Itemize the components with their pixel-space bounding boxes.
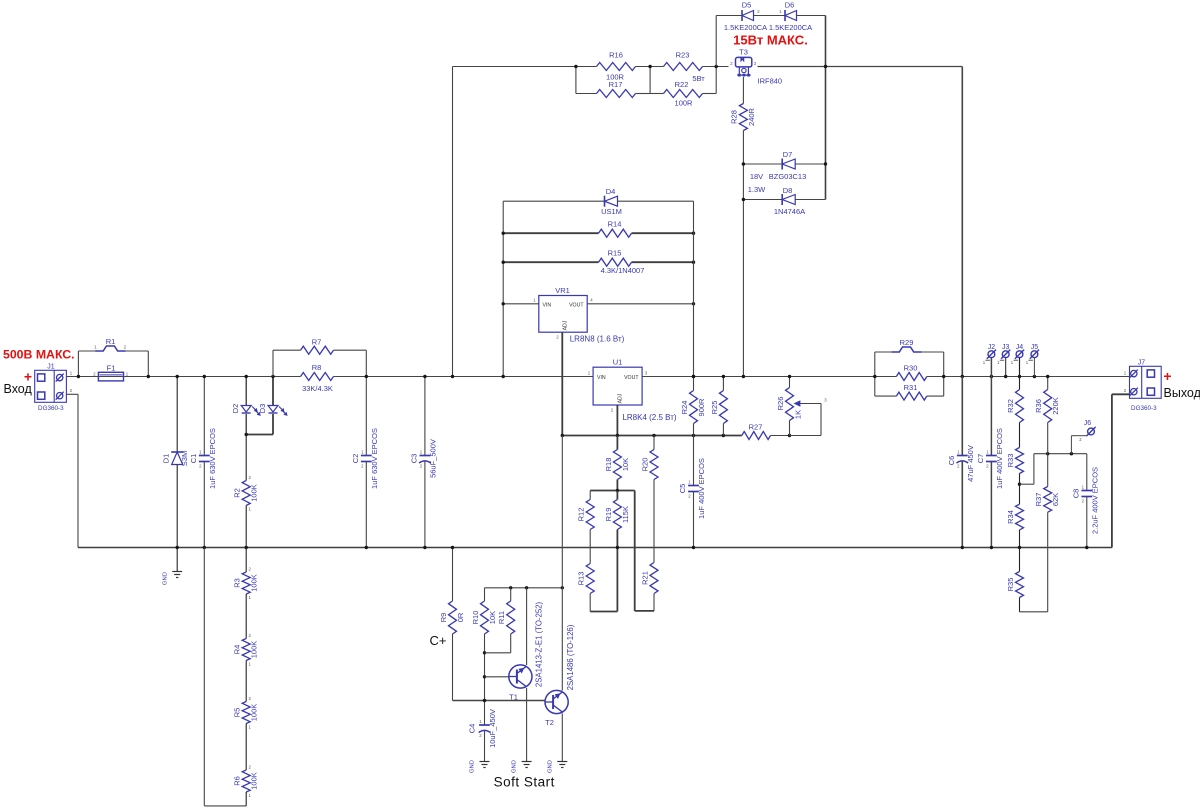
svg-text:R3: R3 (233, 578, 242, 588)
svg-text:4.3K/1N4007: 4.3K/1N4007 (601, 266, 645, 275)
svg-text:10K: 10K (488, 611, 497, 624)
svg-text:J3: J3 (1002, 344, 1010, 351)
svg-text:D2: D2 (231, 404, 240, 414)
svg-text:R11: R11 (497, 611, 506, 624)
svg-text:C6: C6 (947, 456, 956, 466)
svg-text:R37: R37 (1034, 493, 1043, 507)
svg-text:+: + (1163, 368, 1171, 384)
svg-text:C7: C7 (976, 454, 985, 464)
svg-text:R6: R6 (233, 776, 242, 786)
svg-text:GND: GND (548, 760, 554, 773)
svg-text:1uF 630V EPCOS: 1uF 630V EPCOS (208, 428, 217, 489)
svg-text:R16: R16 (609, 51, 623, 60)
svg-text:R15: R15 (608, 249, 622, 258)
svg-text:2SA1413-Z-E1 (TO-252): 2SA1413-Z-E1 (TO-252) (534, 601, 543, 687)
svg-text:VIN: VIN (597, 375, 606, 381)
svg-text:R17: R17 (609, 80, 623, 89)
svg-text:R35: R35 (1006, 578, 1015, 592)
svg-text:R1: R1 (106, 337, 116, 346)
svg-text:62K: 62K (1051, 493, 1060, 506)
svg-text:R10: R10 (471, 611, 480, 625)
svg-text:S3M: S3M (180, 451, 189, 466)
svg-text:T3: T3 (739, 48, 748, 57)
svg-text:D1: D1 (162, 454, 171, 464)
svg-text:R32: R32 (1006, 399, 1015, 413)
svg-text:T2: T2 (545, 718, 554, 727)
svg-text:1.5KE200CA: 1.5KE200CA (769, 23, 812, 32)
svg-text:115K: 115K (621, 506, 630, 523)
svg-text:Soft Start: Soft Start (494, 775, 555, 790)
svg-text:2.2uF 400V EPCOS: 2.2uF 400V EPCOS (1091, 467, 1100, 534)
svg-text:0R: 0R (456, 612, 465, 622)
svg-text:R26: R26 (776, 397, 785, 411)
svg-text:US1M: US1M (601, 207, 622, 216)
svg-text:18V: 18V (750, 172, 763, 181)
svg-text:R7: R7 (312, 338, 322, 347)
svg-text:R31: R31 (904, 383, 918, 392)
svg-text:IRF840: IRF840 (758, 77, 783, 86)
svg-text:VOUT: VOUT (569, 303, 584, 309)
svg-text:D5: D5 (742, 1, 752, 10)
svg-text:D7: D7 (783, 150, 793, 159)
svg-text:R21: R21 (641, 571, 650, 585)
svg-text:1uF 400V EPCOS: 1uF 400V EPCOS (697, 458, 706, 519)
svg-text:R30: R30 (904, 364, 918, 373)
svg-text:R29: R29 (900, 338, 914, 347)
svg-text:C2: C2 (351, 454, 360, 464)
svg-text:R4: R4 (233, 645, 242, 655)
svg-text:R12: R12 (577, 508, 586, 522)
svg-text:DG360-3: DG360-3 (38, 405, 64, 412)
svg-text:100R: 100R (675, 99, 694, 108)
svg-text:GND: GND (163, 572, 169, 585)
svg-text:R22: R22 (675, 80, 689, 89)
svg-text:R9: R9 (439, 613, 448, 623)
svg-text:LR8N8 (1.6 Вт): LR8N8 (1.6 Вт) (570, 335, 625, 344)
svg-text:VOUT: VOUT (624, 375, 639, 381)
svg-text:T1: T1 (509, 693, 518, 702)
svg-text:100K: 100K (250, 704, 259, 722)
svg-text:10uF_450V: 10uF_450V (488, 709, 497, 748)
svg-text:1N4746A: 1N4746A (774, 207, 805, 216)
svg-text:VIN: VIN (543, 303, 552, 309)
svg-text:R34: R34 (1006, 510, 1015, 524)
svg-text:D4: D4 (606, 187, 616, 196)
svg-text:500В МАКС.: 500В МАКС. (3, 347, 75, 361)
svg-text:R28: R28 (730, 110, 739, 124)
svg-text:1.5KE200CA: 1.5KE200CA (724, 23, 767, 32)
svg-text:1.3W: 1.3W (748, 185, 766, 194)
svg-text:15Вт МАКС.: 15Вт МАКС. (733, 33, 808, 48)
svg-text:5Вт: 5Вт (692, 74, 705, 83)
svg-text:240R: 240R (747, 107, 756, 126)
svg-text:D3: D3 (258, 404, 267, 414)
svg-text:J7: J7 (1138, 360, 1146, 367)
svg-text:C5: C5 (678, 484, 687, 494)
svg-text:D6: D6 (785, 1, 795, 10)
svg-text:ADJ: ADJ (618, 393, 624, 403)
svg-text:GND: GND (470, 760, 476, 773)
svg-text:2SA1486 (TO-126): 2SA1486 (TO-126) (566, 624, 575, 690)
svg-text:900R: 900R (697, 398, 706, 417)
svg-text:R36: R36 (1034, 399, 1043, 413)
svg-text:1uF 630V EPCOS: 1uF 630V EPCOS (370, 428, 379, 489)
svg-text:J5: J5 (1031, 344, 1039, 351)
svg-text:C8: C8 (1072, 489, 1081, 499)
svg-text:R13: R13 (577, 572, 586, 586)
svg-text:100K: 100K (250, 484, 259, 502)
svg-text:J4: J4 (1016, 344, 1024, 351)
svg-text:R2: R2 (233, 488, 242, 498)
svg-text:33K/4.3K: 33K/4.3K (302, 384, 333, 393)
svg-text:DG360-3: DG360-3 (1131, 405, 1157, 412)
svg-text:Выход: Выход (1164, 386, 1200, 400)
svg-text:10K: 10K (621, 458, 630, 471)
svg-text:D8: D8 (783, 186, 793, 195)
svg-text:R8: R8 (312, 363, 322, 372)
svg-text:C3: C3 (410, 454, 419, 464)
svg-text:R23: R23 (676, 51, 690, 60)
svg-text:C1: C1 (189, 454, 198, 464)
svg-text:BZG03C13: BZG03C13 (769, 172, 807, 181)
svg-text:R27: R27 (749, 423, 763, 432)
svg-text:100K: 100K (250, 574, 259, 592)
svg-text:47uF 450V: 47uF 450V (966, 445, 975, 482)
svg-text:F1: F1 (107, 364, 116, 373)
svg-text:1uF 400V EPCOS: 1uF 400V EPCOS (995, 428, 1004, 489)
svg-text:GND: GND (512, 760, 518, 773)
svg-text:R18: R18 (604, 458, 613, 472)
svg-text:220K: 220K (1051, 397, 1060, 415)
svg-text:J6: J6 (1084, 420, 1092, 427)
svg-text:J2: J2 (988, 344, 996, 351)
svg-text:Вход: Вход (4, 382, 33, 396)
svg-text:R20: R20 (641, 458, 650, 472)
svg-text:LR8K4 (2.5 Вт): LR8K4 (2.5 Вт) (622, 413, 676, 422)
svg-text:C+: C+ (430, 633, 447, 648)
svg-text:1K: 1K (794, 410, 803, 419)
svg-text:C4: C4 (468, 724, 477, 734)
svg-text:U1: U1 (613, 358, 623, 367)
svg-text:100K: 100K (250, 641, 259, 659)
svg-text:56uF_500V: 56uF_500V (429, 439, 438, 478)
svg-text:VR1: VR1 (555, 286, 570, 295)
svg-text:R19: R19 (604, 508, 613, 522)
svg-text:R14: R14 (608, 220, 622, 229)
svg-text:100K: 100K (250, 772, 259, 790)
svg-text:R33: R33 (1006, 454, 1015, 468)
svg-text:R25: R25 (710, 401, 719, 415)
svg-text:J1: J1 (47, 364, 55, 371)
svg-text:ADJ: ADJ (563, 320, 569, 330)
svg-text:R24: R24 (680, 401, 689, 415)
svg-text:R5: R5 (233, 708, 242, 718)
